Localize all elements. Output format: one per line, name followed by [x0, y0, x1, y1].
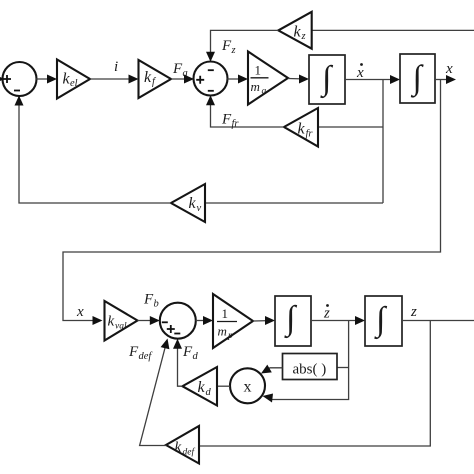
svg-text:abs( ): abs( )	[293, 362, 327, 378]
svg-text:k: k	[294, 24, 302, 41]
svg-text:k: k	[298, 121, 306, 138]
wire z feedback down to k_def	[200, 321, 431, 447]
wire to k_fr input	[318, 126, 383, 128]
label F_def	[128, 344, 153, 362]
svg-text:x: x	[445, 61, 453, 77]
svg-text:z: z	[410, 304, 417, 320]
svg-text:b: b	[154, 299, 159, 310]
svg-text:k: k	[198, 379, 206, 396]
svg-text:x: x	[356, 65, 364, 81]
wire S1 to k_el	[36, 75, 57, 84]
gain 1/m_a	[248, 52, 288, 105]
svg-text:a: a	[262, 87, 267, 97]
gain k_el	[57, 60, 90, 99]
gain k_v	[171, 184, 205, 222]
wire k_def diagonal to S3 (F_def)	[140, 339, 170, 446]
svg-text:a: a	[183, 68, 188, 79]
gain k_fr	[284, 108, 318, 147]
label F_fr	[221, 112, 239, 130]
svg-text:el: el	[70, 78, 78, 89]
svg-text:z: z	[323, 306, 330, 322]
svg-text:val: val	[115, 322, 127, 332]
label F_b	[143, 292, 159, 310]
summing junction S3	[160, 303, 196, 339]
label xdot	[356, 63, 364, 81]
svg-text:F: F	[143, 292, 154, 308]
wire k_z to S2 top (F_z)	[206, 30, 278, 61]
output wire z	[402, 320, 474, 322]
wire I1 to I2 (xdot)	[345, 75, 400, 84]
output wire x	[435, 75, 456, 84]
wire x to bottom section	[63, 80, 441, 326]
gain k_z	[278, 12, 311, 49]
svg-text:fr: fr	[232, 119, 240, 130]
svg-text:k: k	[189, 195, 197, 212]
svg-text:m: m	[218, 324, 227, 339]
wire 1/m_a to integrator I1	[288, 75, 309, 84]
wire xdot branch down	[382, 80, 384, 204]
wire I3 to I4 (zdot)	[311, 316, 365, 325]
gain k_d	[182, 367, 217, 406]
integrator I4	[365, 296, 402, 346]
multiplier M1	[230, 368, 265, 403]
wire k_fr to S2 bottom (F_fr)	[206, 95, 284, 127]
svg-text:i: i	[114, 59, 118, 75]
wire k_v feedback	[205, 202, 383, 204]
svg-text:F: F	[182, 344, 193, 360]
wire k_v to S1 bottom	[15, 96, 172, 204]
integrator I2	[400, 54, 435, 103]
svg-text:x: x	[244, 379, 252, 396]
gain k_def	[166, 426, 199, 464]
svg-text:F: F	[172, 61, 183, 77]
svg-text:k: k	[144, 69, 152, 86]
svg-text:d: d	[193, 351, 199, 362]
wire k_val to S3 (F_b)	[138, 316, 160, 325]
svg-text:v: v	[197, 203, 202, 214]
label zdot	[323, 304, 330, 321]
gain 1/m_p	[213, 294, 253, 348]
wire S3 to 1/m_p	[196, 316, 213, 325]
svg-text:x: x	[76, 304, 84, 320]
svg-text:z: z	[301, 31, 306, 42]
wire k_el to k_f, signal i	[90, 75, 139, 84]
svg-text:z: z	[231, 45, 236, 56]
gain k_val	[105, 301, 138, 341]
summing junction S1	[3, 62, 37, 96]
gain k_f	[139, 60, 172, 98]
svg-text:def: def	[139, 351, 154, 362]
svg-text:1: 1	[222, 306, 229, 321]
svg-text:d: d	[206, 387, 212, 398]
svg-text:m: m	[251, 79, 260, 94]
svg-text:def: def	[183, 447, 196, 458]
wire 1/m_p to integrator I3	[253, 316, 275, 325]
wire S2 to 1/m_a	[227, 75, 248, 84]
integrator I1	[309, 55, 345, 104]
svg-text:F: F	[128, 344, 139, 360]
svg-text:p: p	[227, 331, 233, 341]
label F_z	[221, 38, 236, 56]
wire k_d to S3 bottom (F_d)	[173, 339, 182, 387]
label F_d	[182, 344, 199, 362]
svg-text:k: k	[175, 440, 182, 456]
integrator I3	[275, 296, 311, 346]
label F_a	[172, 61, 188, 79]
wire into abs	[337, 367, 349, 369]
svg-text:fr: fr	[306, 129, 314, 140]
wire k_f to S2 (F_a)	[171, 75, 194, 84]
summing junction S2	[194, 62, 228, 96]
wire zdot branch down to multiplier	[263, 321, 349, 403]
wire k_z feedback from right edge	[312, 29, 474, 31]
svg-text:k: k	[108, 314, 115, 330]
svg-text:F: F	[221, 112, 232, 128]
wire multiplier to k_d	[217, 385, 230, 387]
box abs	[283, 354, 338, 380]
wire abs to multiplier	[261, 365, 283, 374]
svg-text:F: F	[221, 38, 232, 54]
svg-text:1: 1	[255, 63, 262, 78]
input arrow into summing junction S1	[0, 74, 5, 84]
